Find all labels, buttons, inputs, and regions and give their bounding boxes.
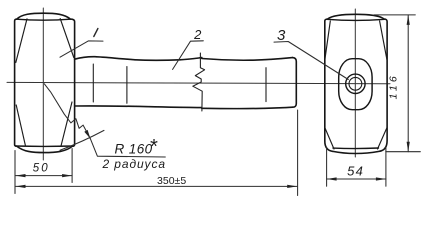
svg-text:116: 116 <box>388 73 400 99</box>
right head upper-right chamfer <box>380 21 387 60</box>
dim 50 left extension line <box>14 151 16 194</box>
dim 50 line <box>16 175 73 177</box>
left head upper-right chamfer <box>60 19 74 58</box>
dim 350 line <box>16 185 298 187</box>
left head lower-right chamfer <box>61 102 72 146</box>
right head lower-left chamfer <box>325 128 334 149</box>
right head upper-left chamfer <box>325 21 330 60</box>
dim 350 right arrow <box>287 185 297 188</box>
eye oval <box>339 59 372 110</box>
right head lower-right chamfer <box>378 128 387 149</box>
svg-text:R 160: R 160 <box>115 142 153 157</box>
svg-text:*: * <box>149 136 158 158</box>
svg-text:50: 50 <box>33 163 50 175</box>
inner circle of handle hole <box>349 77 362 90</box>
dim 116 bottom extension line <box>386 151 421 153</box>
radius callout diagonal from center <box>44 84 90 139</box>
dim 50 right extension line <box>71 149 73 183</box>
leader for position 1 <box>60 41 103 57</box>
right head outline <box>325 14 387 153</box>
dim 50 left arrow <box>16 174 26 177</box>
dim 350 right extension line <box>297 110 299 196</box>
handle break line with zigzags <box>193 53 205 111</box>
svg-text:54: 54 <box>347 163 364 178</box>
handle bottom edge left of break <box>75 106 202 108</box>
dim 54 right extension line <box>385 147 387 186</box>
svg-text:350±5: 350±5 <box>157 175 186 187</box>
dim 54 left arrow <box>327 177 337 180</box>
left head top face lower edge <box>16 19 70 20</box>
svg-text:2: 2 <box>193 27 202 42</box>
handle bottom edge right of break <box>202 107 293 108</box>
dim 116 line <box>407 15 409 152</box>
right head bottom face upper edge <box>333 147 379 150</box>
handle tick 2 <box>126 67 128 104</box>
handle tick 1 <box>92 64 94 102</box>
dim 54 line <box>327 178 386 180</box>
dim 54 left extension line <box>326 148 328 187</box>
dim 116 bottom arrow <box>407 142 410 152</box>
position label 1 stroke <box>94 29 98 37</box>
leader for position 3 <box>274 42 348 80</box>
handle tick 3 <box>265 68 267 102</box>
handle end cap <box>293 58 297 108</box>
dim 116 top arrow <box>407 15 410 25</box>
radius callout arrowhead <box>84 130 90 139</box>
left head upper-left chamfer <box>16 19 27 63</box>
left head vertical centerline <box>42 8 44 160</box>
left head outline <box>15 13 75 152</box>
dim 116 top extension line <box>374 14 415 16</box>
right head vertical centerline <box>354 9 356 157</box>
dim 54 right arrow <box>376 177 386 180</box>
R160 arc <box>60 130 104 150</box>
leader for position 2 <box>173 41 204 70</box>
dim 350 left arrow <box>16 185 26 188</box>
svg-text:2 радиуса: 2 радиуса <box>102 157 166 171</box>
radius callout leader to text <box>90 139 165 157</box>
handle top edge right of break <box>202 58 293 61</box>
left head bottom face upper edge <box>15 145 73 147</box>
dim 50 right arrow <box>62 174 72 177</box>
svg-text:3: 3 <box>277 27 286 44</box>
main axis centerline <box>7 82 390 83</box>
left head lower-left chamfer <box>16 105 25 146</box>
right head top face lower edge <box>327 19 385 20</box>
outer circle of handle hole <box>346 74 365 93</box>
handle top edge left of break <box>75 57 202 61</box>
